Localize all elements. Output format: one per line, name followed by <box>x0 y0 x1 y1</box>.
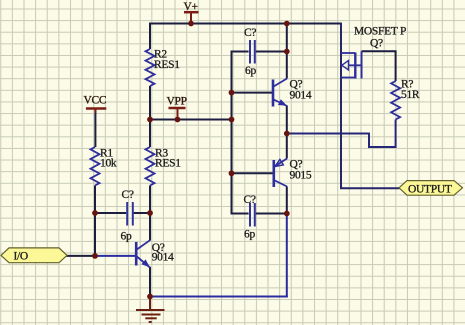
wire Q1 emitter to Q2 emitter <box>286 106 288 159</box>
wire Q1 base <box>232 92 273 94</box>
wire R4 top lead to mosfet bracket <box>362 51 396 81</box>
wire I/O to Q3 base <box>66 255 95 257</box>
wire VCC stem to R1 <box>94 109 96 148</box>
resistor R3 <box>146 147 155 186</box>
wire R2 bottom to R3 top through VPP rail <box>149 86 151 147</box>
node VPP left <box>147 117 153 123</box>
wire capacitor C3 left lead <box>95 212 126 214</box>
resistor R2 <box>146 49 155 86</box>
node C3 right <box>147 210 153 216</box>
node Q1 base <box>229 90 235 96</box>
capacitor C1 6p <box>250 40 255 64</box>
node VPP right <box>229 117 235 123</box>
svg-text:6p: 6p <box>245 65 256 77</box>
svg-text:MOSFET P: MOSFET P <box>354 26 406 38</box>
wire capacitor C2 left lead <box>231 213 249 215</box>
svg-text:V+: V+ <box>184 1 198 13</box>
svg-text:9014: 9014 <box>290 89 312 101</box>
svg-text:C?: C? <box>244 194 256 206</box>
wire left column upper (R2 top lead) <box>149 23 151 50</box>
wire capacitor C1 right lead <box>256 51 288 53</box>
svg-text:VCC: VCC <box>84 95 107 107</box>
node gate return <box>284 131 290 137</box>
wire mosfet vertical to OUTPUT <box>341 23 400 189</box>
power VPP <box>169 107 186 110</box>
power V+ <box>184 11 199 14</box>
wire top rail V+ <box>150 23 341 25</box>
capacitor C3 6p <box>127 202 133 226</box>
transistor Q1 9014 <box>273 79 287 107</box>
svg-text:VPP: VPP <box>167 96 187 108</box>
wire middle column node B <box>231 52 233 214</box>
svg-text:C?: C? <box>244 27 256 39</box>
power VCC <box>86 107 106 110</box>
capacitor C2 6p <box>250 203 255 227</box>
svg-text:6p: 6p <box>244 228 255 240</box>
wire node C2 down to bottom rail <box>286 214 288 298</box>
wire capacitor C1 left lead <box>231 51 249 53</box>
svg-text:I/O: I/O <box>14 251 28 263</box>
wire Q2 collector to node C2 <box>286 187 288 214</box>
port OUTPUT <box>399 181 463 196</box>
svg-text:51R: 51R <box>401 89 420 101</box>
svg-text:OUTPUT: OUTPUT <box>408 184 452 196</box>
node V+ junction <box>188 21 194 27</box>
resistor R4 51R <box>391 81 400 120</box>
wire gate return to R4 bottom <box>287 120 396 148</box>
wire capacitor C3 right lead <box>134 212 151 214</box>
svg-text:RES1: RES1 <box>154 59 180 71</box>
svg-text:Q?: Q? <box>370 37 383 49</box>
node ground <box>147 294 153 300</box>
wire Q2 base <box>232 172 274 174</box>
transistor Q2 9015 <box>274 159 287 188</box>
node Q2 base <box>229 170 235 176</box>
ground <box>136 297 165 323</box>
mosfet U1 MOSFET P <box>341 51 362 78</box>
svg-text:9014: 9014 <box>152 252 174 264</box>
wire R3 bottom to Q3 collector <box>149 186 151 241</box>
wire Q3 emitter to ground node <box>149 267 151 297</box>
node I/O <box>92 253 98 259</box>
svg-text:9015: 9015 <box>290 169 312 181</box>
wire right column top (rail to Q1 collector) <box>286 23 288 79</box>
node C3 left <box>92 210 98 216</box>
wire capacitor C2 right lead <box>256 213 288 215</box>
port I/O <box>1 248 67 263</box>
wire bottom rail <box>150 296 288 298</box>
transistor Q3 9014 <box>136 240 150 267</box>
resistor R1 <box>91 147 100 186</box>
node VPP stem <box>175 117 181 123</box>
node C2 right <box>284 211 290 217</box>
svg-text:C?: C? <box>122 189 134 201</box>
svg-text:RES1: RES1 <box>155 157 181 169</box>
wire VPP rail <box>150 119 232 121</box>
node rail/right column <box>284 21 290 27</box>
wire R1 bottom to I/O node <box>94 186 96 256</box>
node C1 right <box>284 49 290 55</box>
svg-text:10k: 10k <box>100 157 117 169</box>
svg-text:6p: 6p <box>121 230 132 242</box>
